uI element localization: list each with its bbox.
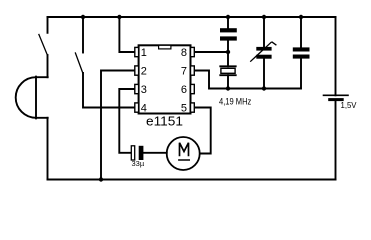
wire top supply rail	[48, 16, 336, 18]
wire pin 7 to oscillator bottom net	[194, 71, 300, 89]
svg-text:4,19 MHz: 4,19 MHz	[219, 97, 252, 107]
trimmer capacitor C2 top lead	[263, 17, 265, 47]
svg-text:8: 8	[181, 47, 187, 59]
trimmer capacitor C2 plates	[256, 47, 271, 51]
capacitor 33µ right plate	[139, 146, 144, 160]
svg-text:7: 7	[181, 65, 187, 77]
motor M1 underline	[178, 159, 190, 161]
IC U1 pin 4 box	[135, 103, 139, 112]
svg-text:3: 3	[141, 84, 147, 96]
earphone dome	[16, 77, 36, 118]
IC U1 pin 1 box	[135, 47, 139, 56]
motor M1 circle	[167, 137, 200, 170]
crystal X1 top plate	[220, 65, 235, 67]
trimmer capacitor C2 arrow	[250, 42, 276, 62]
svg-text:4: 4	[141, 102, 147, 114]
wire switch S1 to earphone	[47, 55, 49, 77]
svg-text:1: 1	[141, 47, 147, 59]
junction oscillator net / trimmer C2	[262, 86, 266, 90]
IC U1 pin 3 box	[135, 84, 139, 93]
junction oscillator net / crystal	[226, 86, 230, 90]
capacitor C1 bottom lead	[227, 41, 229, 67]
switch S2 blade	[75, 53, 82, 73]
IC U1 pin 6 box	[191, 84, 195, 93]
junction top rail / pin 1 drop	[117, 15, 121, 19]
capacitor C1 plates	[220, 28, 237, 32]
IC U1 pin 5 box	[191, 103, 195, 112]
svg-text:6: 6	[181, 84, 187, 96]
crystal X1 body	[221, 68, 235, 73]
battery top lead	[335, 17, 337, 95]
junction pin 8 / crystal node	[226, 50, 230, 54]
trimmer capacitor C2 bottom lead	[263, 59, 265, 89]
capacitor C3 top lead	[300, 17, 302, 47]
svg-text:5: 5	[181, 102, 187, 114]
junction top rail / switch S2	[81, 15, 85, 19]
capacitor C3 bottom lead	[300, 59, 302, 89]
svg-text:1,5V: 1,5V	[341, 100, 357, 110]
svg-text:e1151: e1151	[146, 115, 183, 129]
capacitor C3 plates	[293, 47, 310, 51]
svg-text:33µ: 33µ	[132, 159, 145, 168]
IC U1 pin 7 box	[191, 66, 195, 75]
wire pin 3 to capacitor 33µ	[119, 89, 135, 153]
junction bottom rail / pin 2 drop	[99, 177, 103, 181]
motor M1 letter	[180, 143, 189, 157]
junction top rail / capacitor C3	[299, 15, 303, 19]
capacitor C1 top lead	[227, 17, 229, 28]
earphone terminals	[36, 77, 48, 118]
IC U1 notch	[159, 45, 171, 49]
battery negative plate	[330, 98, 343, 101]
wire motor to pin 5	[194, 108, 210, 154]
switch S1 top terminal	[47, 17, 49, 33]
junction top rail / trimmer C2	[262, 15, 266, 19]
capacitor 33µ left plate	[131, 146, 134, 160]
wire earphone to bottom rail	[47, 118, 49, 180]
battery positive plate	[324, 94, 349, 96]
svg-text:2: 2	[141, 65, 147, 77]
IC U1 body	[139, 45, 191, 113]
wire switch S2 to pin 4	[83, 73, 135, 108]
wire capacitor 33µ to motor	[144, 152, 167, 154]
switch S2 top terminal	[82, 17, 84, 53]
wire pin 8 to crystal node	[194, 51, 228, 53]
earphone plate	[35, 77, 37, 119]
IC U1 pin 2 box	[135, 66, 139, 75]
switch S1 blade	[39, 35, 48, 56]
battery bottom lead	[335, 101, 337, 179]
crystal X1 bottom plate	[220, 74, 235, 76]
wire pin 2 to bottom rail	[101, 71, 135, 180]
junction top rail / capacitor C1	[226, 15, 230, 19]
IC U1 pin 8 box	[191, 47, 195, 56]
wire top rail to pin 1	[119, 17, 134, 52]
wire bottom rail	[48, 179, 336, 181]
crystal X1 bottom lead	[227, 75, 229, 88]
